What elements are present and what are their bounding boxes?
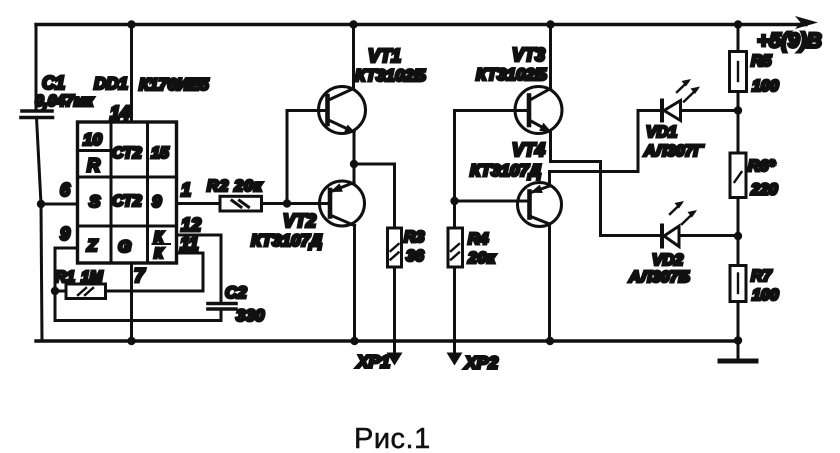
svg-text:DD1: DD1 — [94, 74, 128, 93]
power rail arrow — [795, 16, 818, 29]
svg-text:VD2: VD2 — [652, 252, 683, 269]
svg-text:R2 20к: R2 20к — [207, 178, 263, 195]
svg-text:6: 6 — [60, 180, 71, 200]
connector XP1 arrow — [387, 353, 403, 366]
svg-text:15: 15 — [151, 145, 170, 162]
svg-text:R7: R7 — [751, 268, 773, 285]
svg-text:220: 220 — [750, 182, 778, 199]
svg-text:0,047мк: 0,047мк — [35, 93, 94, 110]
wire ground bus — [36, 339, 738, 342]
node rail VT3 — [546, 20, 554, 28]
node stage2 base — [450, 197, 458, 205]
node rail VT1 — [349, 20, 357, 28]
svg-text:11: 11 — [180, 234, 199, 254]
svg-text:ХР1: ХР1 — [356, 352, 390, 372]
svg-text:С2: С2 — [225, 283, 247, 302]
svg-text:S: S — [89, 192, 101, 211]
wire VT4 emitter up — [548, 172, 551, 187]
svg-text:R6*: R6* — [748, 158, 775, 175]
wire mid vertical to VD2 — [601, 162, 663, 236]
wire R7 to bus — [737, 302, 740, 341]
resistor R2 — [220, 196, 262, 211]
node VT4 bus — [546, 337, 554, 345]
wire VT2 collector to bus — [353, 226, 356, 342]
led VD2 — [660, 226, 664, 247]
svg-text:R5: R5 — [751, 53, 773, 70]
wire pin 12 — [177, 235, 222, 304]
wire base vertical to VT1 — [287, 111, 328, 204]
wire rail to R5 — [737, 25, 740, 52]
svg-text:100: 100 — [752, 287, 779, 304]
wire top power rail — [36, 23, 806, 26]
resistor R1 — [55, 290, 66, 293]
wire left vertical (lower) — [37, 118, 43, 342]
svg-text:330: 330 — [236, 306, 265, 325]
svg-text:Рис.1: Рис.1 — [354, 423, 431, 453]
node R1 left — [51, 287, 59, 295]
wire pin 6 — [41, 203, 78, 206]
ground — [737, 341, 740, 359]
svg-text:VD1: VD1 — [646, 124, 677, 141]
svg-text:R4: R4 — [468, 231, 489, 248]
VD2 emission arrows — [670, 204, 681, 215]
wire R6 to node — [737, 198, 740, 237]
capacitor C2 — [208, 302, 236, 306]
node base junction VT1/VT2 — [283, 199, 291, 207]
node pin7 bus — [127, 337, 135, 345]
transistor VT1 — [319, 87, 366, 134]
wire VT2 emitter up — [353, 164, 356, 183]
node rail R5 — [734, 20, 742, 28]
resistor R3 — [388, 228, 402, 267]
svg-text:1М: 1М — [81, 269, 104, 286]
wire emitter node to R3 — [354, 164, 395, 228]
wire pin 1 — [177, 202, 221, 205]
svg-text:С1: С1 — [42, 73, 65, 93]
svg-text:9: 9 — [60, 224, 70, 244]
wire stage2 base vertical — [453, 111, 456, 229]
wire R5 to node — [737, 92, 740, 111]
svg-text:VT4: VT4 — [512, 140, 545, 160]
DD1 internal dividers — [110, 122, 113, 263]
led VD1 — [660, 101, 664, 121]
transistor VT2 — [320, 181, 365, 226]
svg-text:VT3: VT3 — [512, 45, 545, 65]
svg-text:12: 12 — [181, 215, 201, 235]
wire VT3 collector to rail — [549, 25, 552, 89]
node emitter junction — [350, 160, 358, 168]
svg-text:R3: R3 — [404, 229, 425, 246]
resistor R6 — [730, 153, 746, 198]
svg-text:+5(9)В: +5(9)В — [757, 30, 822, 53]
svg-text:КТ3107Д: КТ3107Д — [470, 161, 541, 180]
wire node to R7 — [737, 236, 740, 266]
node pin6 left rail — [37, 200, 45, 208]
wire node to R6 — [737, 111, 740, 154]
transistor VT3 — [515, 87, 562, 134]
wire pin14 from rail to DD1 — [130, 25, 133, 123]
wire pin 9 (Z input) — [55, 248, 78, 291]
wire VT1 emitter down — [353, 132, 356, 164]
node bus ground — [734, 336, 742, 344]
svg-text:АЛ307Г: АЛ307Г — [643, 143, 704, 160]
wire C2 bottom to Z node — [55, 291, 221, 321]
wire VT4 emitter to VD1 branch — [550, 111, 663, 172]
svg-text:9: 9 — [152, 192, 162, 211]
node R5 VD1 — [734, 106, 742, 114]
wire VT3 emitter step — [551, 132, 601, 162]
transistor VT4 — [518, 183, 562, 227]
svg-text:VT2: VT2 — [283, 211, 316, 231]
wire R2 to VT2 base — [262, 202, 331, 205]
svg-text:ХР2: ХР2 — [464, 353, 498, 373]
svg-text:К: К — [154, 246, 164, 262]
svg-text:VT1: VT1 — [368, 46, 401, 66]
VD1 emission arrows — [677, 82, 688, 93]
connector XP2 arrow — [447, 353, 463, 366]
svg-text:К176ИЕ5: К176ИЕ5 — [139, 76, 210, 94]
svg-text:КТ3107Д: КТ3107Д — [251, 231, 322, 250]
wire left vertical (upper, to C1) — [35, 25, 38, 112]
svg-text:10: 10 — [83, 130, 102, 149]
op chip DD1 box — [78, 122, 177, 263]
svg-text:R1: R1 — [55, 269, 75, 286]
svg-text:КТ3102Б: КТ3102Б — [355, 66, 426, 85]
svg-text:14: 14 — [110, 103, 130, 123]
node R6 VD2 — [734, 232, 742, 240]
svg-text:36: 36 — [406, 248, 424, 265]
wire VT4 collector to bus — [548, 224, 551, 341]
svg-text:АЛ307Б: АЛ307Б — [628, 269, 690, 286]
wire VT4 base — [455, 200, 530, 203]
resistor R7 — [730, 266, 746, 302]
svg-text:СТ2: СТ2 — [112, 145, 142, 162]
svg-text:Z: Z — [86, 236, 98, 255]
capacitor C1 — [22, 109, 52, 113]
svg-text:20к: 20к — [467, 250, 496, 267]
wire VT3 base — [455, 109, 530, 112]
wire R4 to XP2 — [453, 267, 456, 354]
wire pin 7 — [130, 263, 133, 341]
svg-text:R: R — [87, 156, 100, 176]
svg-text:100: 100 — [752, 78, 779, 95]
resistor R5 — [730, 52, 747, 92]
svg-text:КТ3102Б: КТ3102Б — [476, 65, 547, 84]
wire R3 to XP1 — [393, 267, 396, 354]
svg-text:1: 1 — [181, 180, 191, 200]
wire pin 11 — [177, 253, 204, 291]
svg-text:G: G — [118, 237, 131, 256]
node rail-pin14 — [127, 20, 135, 28]
node VT2 bus — [350, 337, 358, 345]
svg-text:СТ2: СТ2 — [112, 193, 142, 210]
svg-text:7: 7 — [134, 266, 146, 287]
resistor R4 — [448, 228, 463, 267]
wire VT1 collector to rail — [352, 25, 355, 89]
